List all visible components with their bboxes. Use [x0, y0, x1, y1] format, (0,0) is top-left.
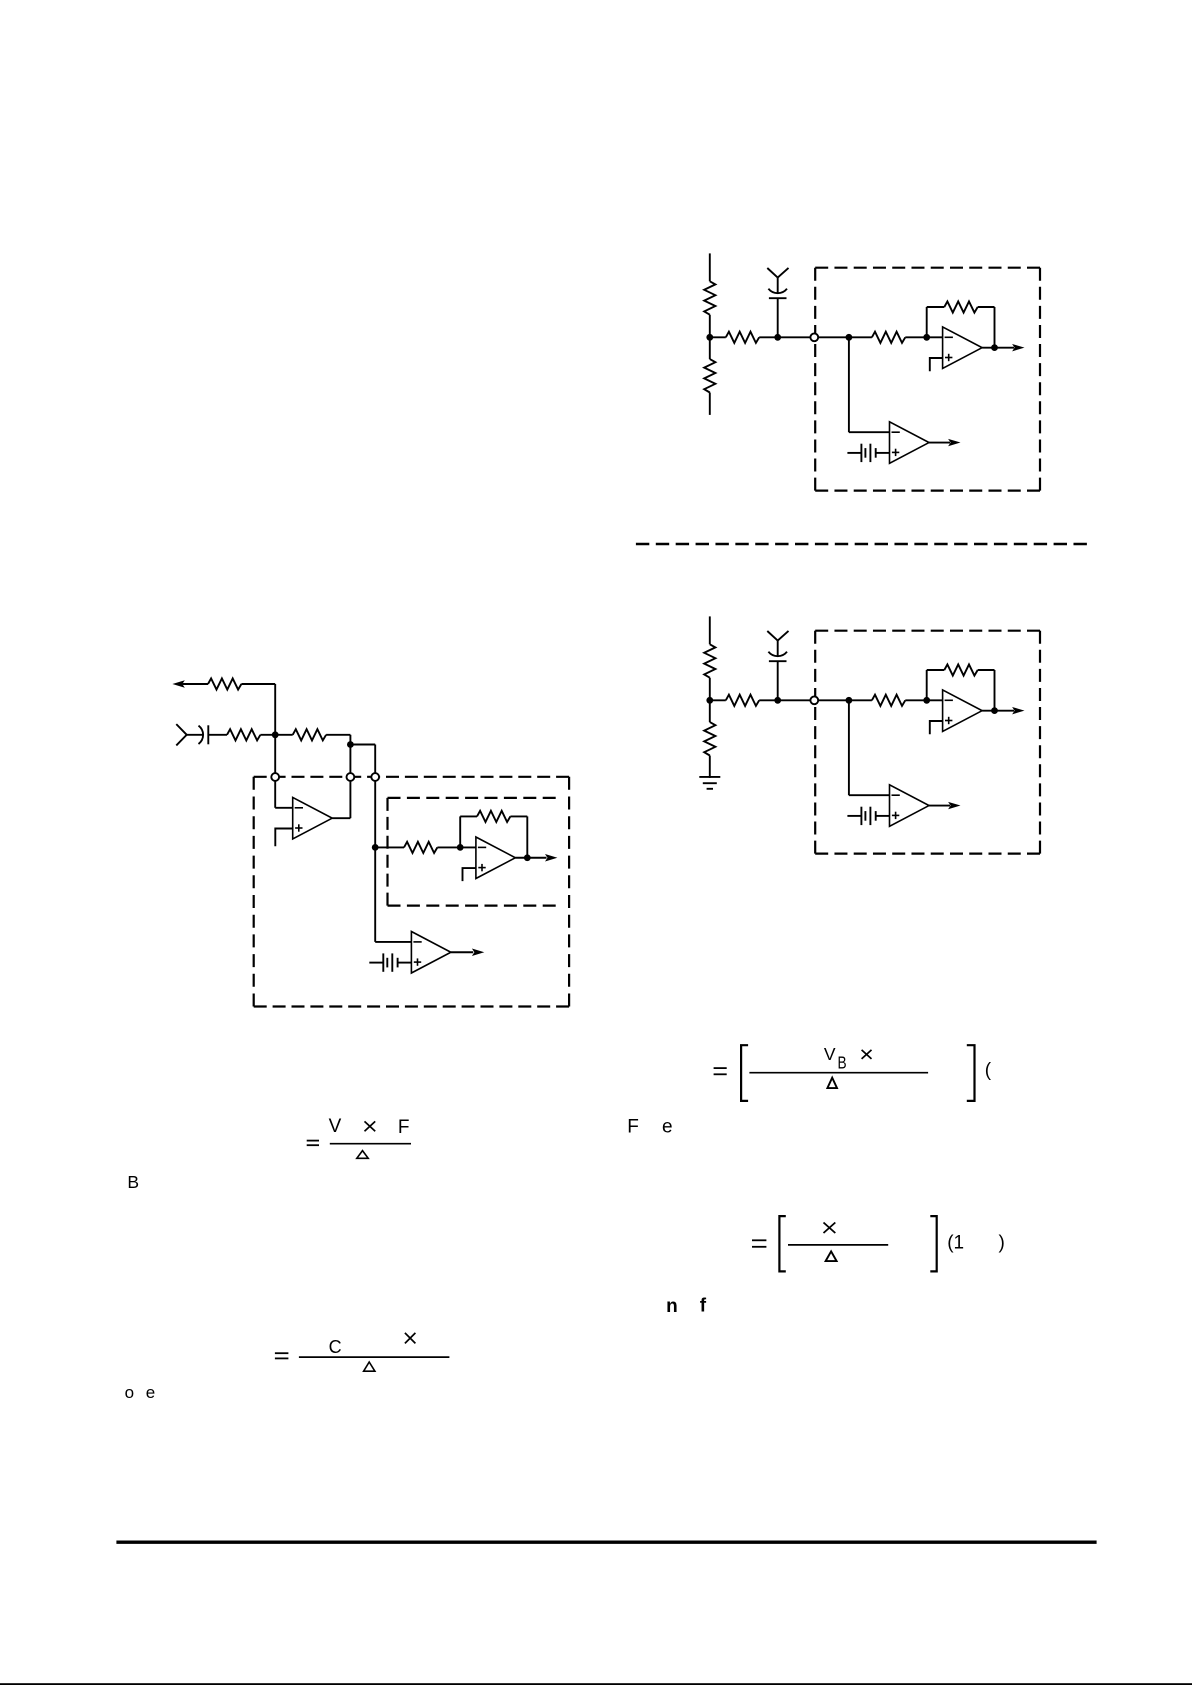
- svg-text:V: V: [329, 1116, 342, 1137]
- svg-text:(1: (1: [947, 1233, 964, 1254]
- svg-text:B: B: [838, 1054, 847, 1073]
- svg-text:F: F: [627, 1116, 639, 1137]
- svg-text:C: C: [329, 1337, 342, 1357]
- svg-text:(: (: [985, 1060, 992, 1081]
- svg-text:o: o: [125, 1383, 134, 1402]
- svg-text:f: f: [700, 1296, 707, 1317]
- svg-text:V: V: [824, 1044, 836, 1064]
- svg-text:e: e: [146, 1383, 155, 1402]
- svg-text:n: n: [666, 1296, 678, 1317]
- svg-text:B: B: [127, 1172, 139, 1192]
- svg-text:): ): [999, 1233, 1005, 1254]
- svg-text:F: F: [398, 1117, 410, 1138]
- svg-text:e: e: [662, 1116, 673, 1137]
